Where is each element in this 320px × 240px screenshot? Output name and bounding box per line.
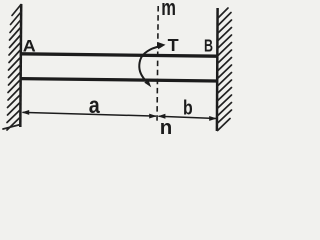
left wall [19, 4, 22, 127]
svg-text:a: a [89, 92, 101, 118]
svg-text:B: B [204, 35, 213, 55]
arrowhead at left wall (points left) [22, 110, 30, 115]
svg-text:n: n [160, 116, 173, 139]
svg-text:b: b [183, 97, 193, 119]
torque arrow top head [157, 42, 165, 49]
right wall [216, 8, 219, 131]
arrowhead at section line (points left) [158, 114, 166, 119]
bar top edge [21, 54, 217, 56]
left wall hatching [3, 5, 21, 131]
right wall hatching [218, 8, 232, 131]
dimension line b [159, 116, 217, 118]
svg-text:m: m [161, 0, 176, 20]
torque arrow bottom head [144, 79, 151, 87]
dimension line a [23, 112, 157, 116]
svg-text:A: A [23, 37, 36, 55]
arrowhead at section line (points right) [149, 114, 157, 119]
svg-text:T: T [168, 35, 180, 55]
arrowhead at right wall (points right) [209, 116, 217, 121]
bar bottom edge [21, 79, 217, 81]
torque arrow arc [139, 46, 159, 80]
section line m-n (dashed) [157, 6, 158, 124]
